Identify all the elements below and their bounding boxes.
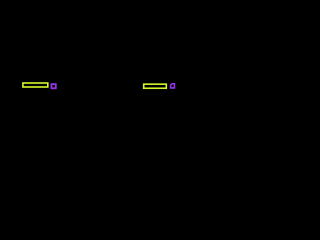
resistor R1 (box body) bbox=[23, 83, 48, 87]
resistor R2 (box body) bbox=[144, 84, 167, 88]
pin square P1 bbox=[51, 84, 55, 88]
pin pentagon P2 (chamfered square) bbox=[171, 84, 175, 88]
